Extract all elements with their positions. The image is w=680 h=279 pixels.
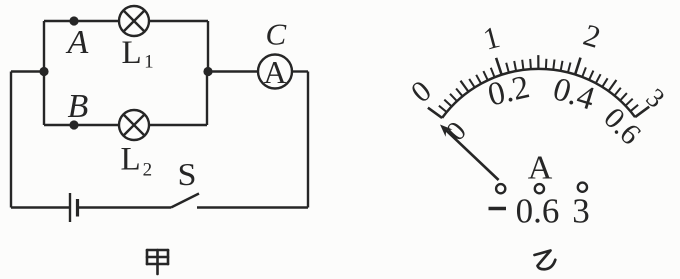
svg-text:0: 0: [405, 74, 438, 109]
wire: left junction stub: [11, 70, 44, 72]
svg-text:A: A: [66, 24, 89, 61]
wire: left parallel-branch vertical: [43, 21, 45, 125]
wire: bottom branch right segment: [149, 124, 207, 126]
svg-text:1: 1: [479, 19, 503, 57]
battery long plate: [69, 193, 71, 222]
svg-text:0.4: 0.4: [549, 71, 599, 117]
wire: outer loop left vertical: [10, 72, 12, 208]
needle arrowhead: [440, 125, 453, 137]
svg-text:0.6: 0.6: [516, 192, 560, 231]
junction dot left split: [39, 67, 48, 76]
terminal 3: [578, 183, 587, 192]
switch S open blade: [171, 194, 199, 208]
wire: right parallel-branch vertical upper: [207, 21, 209, 72]
junction dot at node B: [69, 120, 78, 129]
junction dot at node A: [69, 16, 78, 25]
junction dot right merge: [203, 67, 212, 76]
svg-text:2: 2: [580, 17, 605, 55]
terminal negative: [496, 184, 505, 193]
caption yi (figure B): [535, 251, 556, 270]
wire: right junction to ammeter: [208, 70, 258, 72]
svg-text:A: A: [263, 54, 286, 90]
svg-text:A: A: [528, 149, 553, 186]
svg-text:3: 3: [572, 192, 590, 231]
wire: battery to switch: [79, 206, 171, 208]
battery short plate: [76, 199, 79, 217]
svg-text:C: C: [266, 17, 287, 52]
wire: right parallel-branch vertical lower: [206, 72, 208, 126]
svg-text:0.6: 0.6: [597, 101, 647, 151]
wire: bottom left segment to battery: [11, 206, 69, 208]
meter scale tick marks: [428, 58, 649, 118]
meter scale arc baseline: [442, 69, 635, 118]
svg-text:L2: L2: [121, 142, 153, 181]
svg-text:L1: L1: [122, 35, 154, 73]
svg-text:S: S: [178, 156, 197, 192]
meter needle at zero: [444, 128, 499, 180]
wire: switch to bottom right corner: [197, 206, 308, 208]
terminal label minus: [489, 207, 507, 210]
svg-text:0.2: 0.2: [485, 69, 533, 113]
lamp L1 symbol: [119, 6, 149, 36]
svg-text:B: B: [68, 88, 89, 125]
ammeter symbol in circuit: [258, 54, 292, 90]
wire: top branch left segment through node A: [44, 20, 119, 22]
wire: outer loop right vertical: [307, 72, 309, 208]
wire: ammeter to top right corner: [292, 70, 308, 72]
wire: bottom branch left segment through node B: [44, 124, 119, 126]
caption jia (figure A): [147, 250, 168, 274]
terminal 0.6: [535, 184, 544, 193]
wire: top branch right segment: [149, 20, 208, 22]
lamp L2 symbol: [119, 110, 149, 140]
